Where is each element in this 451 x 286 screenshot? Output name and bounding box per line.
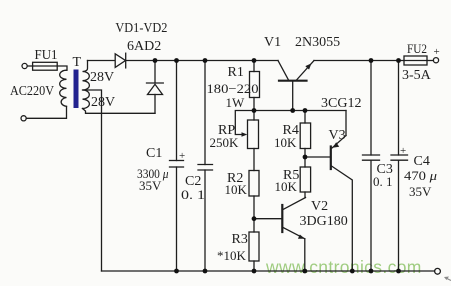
svg-text:V1: V1 <box>264 35 281 50</box>
capacitor C1 <box>176 61 178 161</box>
transistor V2 <box>281 205 283 232</box>
input terminal bottom <box>21 116 26 121</box>
fuse FU1 <box>33 62 58 70</box>
svg-text:3DG180: 3DG180 <box>300 214 348 229</box>
svg-text:28V: 28V <box>90 70 114 85</box>
transformer core <box>74 70 79 109</box>
svg-text:VD1-VD2: VD1-VD2 <box>115 21 167 36</box>
resistor R1 <box>253 61 255 72</box>
diode VD2 <box>154 61 156 84</box>
wire bottom rail <box>102 270 435 272</box>
output terminal + <box>433 58 438 63</box>
svg-text:V2: V2 <box>311 199 328 214</box>
svg-text:C4: C4 <box>414 154 430 169</box>
wire fuse to primary <box>57 66 67 70</box>
svg-text:R1: R1 <box>228 65 244 80</box>
resistor R5 <box>300 167 310 192</box>
wire <box>27 65 32 67</box>
transistor V1 <box>279 80 307 82</box>
wire center tap <box>83 90 102 271</box>
capacitor C4 <box>398 61 400 156</box>
svg-text:10K: 10K <box>225 182 248 197</box>
svg-text:FU2: FU2 <box>407 41 427 56</box>
wire second rail <box>254 110 346 112</box>
wire secondary bottom to VD2 <box>83 109 156 114</box>
output terminal - <box>435 268 441 274</box>
svg-text:AC220V: AC220V <box>10 83 54 98</box>
transformer T secondary winding <box>83 61 90 109</box>
input terminal top <box>22 63 27 68</box>
svg-text:35V: 35V <box>409 184 432 199</box>
capacitor C3 <box>370 61 372 156</box>
svg-text:FU1: FU1 <box>35 47 58 62</box>
svg-text:C1: C1 <box>146 146 162 161</box>
svg-text:*10K: *10K <box>217 248 247 263</box>
svg-text:0. 1: 0. 1 <box>181 187 205 202</box>
resistor R2 <box>249 171 259 197</box>
fuse FU2 <box>404 56 427 65</box>
svg-text:+: + <box>179 150 185 162</box>
svg-text:+: + <box>434 46 440 58</box>
capacitor C2 <box>204 61 206 165</box>
svg-text:R3: R3 <box>232 232 248 247</box>
potentiometer RP <box>253 111 255 121</box>
resistor R3 <box>249 232 259 261</box>
svg-text:6AD2: 6AD2 <box>127 39 161 54</box>
diode VD1 <box>115 54 125 68</box>
svg-text:+: + <box>400 145 406 157</box>
resistor R4 <box>304 111 306 124</box>
transformer T primary winding <box>60 70 67 106</box>
svg-text:10K: 10K <box>274 135 297 150</box>
svg-text:T: T <box>73 55 82 70</box>
wire top rail mid <box>126 60 278 62</box>
svg-text:10K: 10K <box>275 179 298 194</box>
svg-text:180−220: 180−220 <box>207 81 259 96</box>
svg-text:1W: 1W <box>226 95 246 110</box>
svg-text:470 μ: 470 μ <box>404 168 438 183</box>
svg-text:3-5A: 3-5A <box>402 68 432 83</box>
svg-text:V3: V3 <box>329 128 346 143</box>
svg-text:0. 1: 0. 1 <box>373 174 393 189</box>
svg-text:28V: 28V <box>91 95 115 110</box>
wire top rail left <box>88 60 116 62</box>
cursor mark bottom right <box>444 277 451 281</box>
svg-text:2N3055: 2N3055 <box>295 35 340 50</box>
svg-text:250K: 250K <box>210 135 240 150</box>
wire top rail right <box>314 60 404 62</box>
svg-text:3CG12: 3CG12 <box>321 96 361 111</box>
transistor V3 <box>305 156 330 158</box>
wire bottom terminal to primary <box>26 106 66 118</box>
svg-text:35V: 35V <box>139 178 162 193</box>
